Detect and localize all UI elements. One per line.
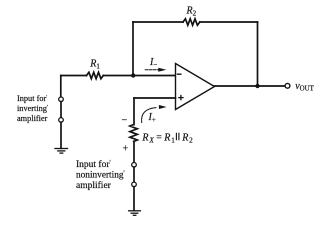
wire R1 right lead to node A xyxy=(103,75,133,77)
svg-text:noninverting': noninverting' xyxy=(76,171,125,181)
wire node A to op-amp minus input xyxy=(133,75,176,77)
junction node A xyxy=(131,73,135,77)
wire output xyxy=(215,85,286,87)
current arrow I+ curved xyxy=(142,108,156,123)
wire RX to terminal xyxy=(133,141,135,162)
current arrow I- dashed xyxy=(145,69,159,71)
wire between input terminals xyxy=(60,102,62,118)
wire terminal to bottom ground xyxy=(133,187,135,211)
op-amp U1 xyxy=(176,64,215,110)
op-amp plus pin mark xyxy=(179,96,183,100)
wire plus input vertical to RX xyxy=(133,98,135,125)
svg-text:R: R xyxy=(163,132,170,143)
wire terminal to ground xyxy=(60,122,62,148)
wire feedback top right segment xyxy=(200,21,258,23)
svg-text:2: 2 xyxy=(189,136,193,144)
svg-text:Input for': Input for' xyxy=(17,94,47,103)
resistor RX xyxy=(130,125,137,142)
ground left xyxy=(55,149,68,154)
terminal inverting input top xyxy=(59,97,64,102)
wire left input vertical xyxy=(60,76,62,98)
svg-text:R1: R1 xyxy=(89,58,100,70)
wire feedback top left segment xyxy=(133,21,183,23)
svg-text:amplifier: amplifier xyxy=(76,180,112,191)
svg-text:R: R xyxy=(181,132,188,143)
label RX equation xyxy=(141,132,193,144)
svg-text:vOUT: vOUT xyxy=(295,81,314,93)
terminal vOUT xyxy=(285,83,290,88)
svg-text:+: + xyxy=(123,144,129,155)
svg-text:1: 1 xyxy=(171,136,175,144)
wire R1 left lead xyxy=(61,75,87,77)
svg-text:I−: I− xyxy=(149,57,157,69)
svg-text:I+: I+ xyxy=(148,112,156,124)
wire feedback right vertical to output node xyxy=(257,22,259,86)
svg-text:R2: R2 xyxy=(186,6,197,18)
terminal inverting input bottom xyxy=(59,118,64,123)
resistor R1 xyxy=(87,72,104,78)
svg-text:R: R xyxy=(141,132,148,143)
terminal noninverting input bottom xyxy=(132,182,137,187)
junction output node xyxy=(255,84,259,88)
svg-text:−: − xyxy=(122,115,128,126)
svg-text:=: = xyxy=(156,132,162,143)
wire between noninverting terminals xyxy=(133,167,135,182)
svg-text:X: X xyxy=(148,136,154,144)
svg-text:amplifier: amplifier xyxy=(17,114,48,123)
wire op-amp plus input xyxy=(134,97,176,99)
resistor R2 xyxy=(183,19,200,25)
terminal noninverting input top xyxy=(132,163,137,168)
svg-text:inverting': inverting' xyxy=(17,104,48,113)
ground bottom xyxy=(129,211,141,216)
op-amp minus pin mark xyxy=(178,73,181,75)
wire feedback left vertical xyxy=(132,22,134,76)
svg-text:Input for': Input for' xyxy=(76,159,111,170)
